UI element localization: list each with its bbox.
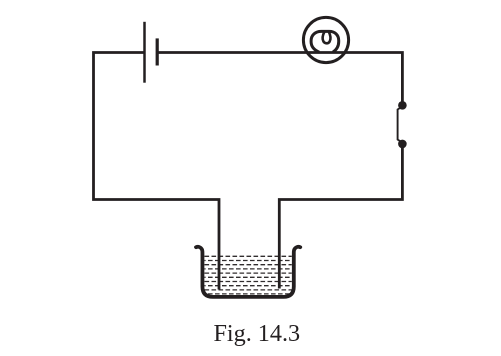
svg-text:Fig. 14.3: Fig. 14.3	[213, 320, 300, 347]
